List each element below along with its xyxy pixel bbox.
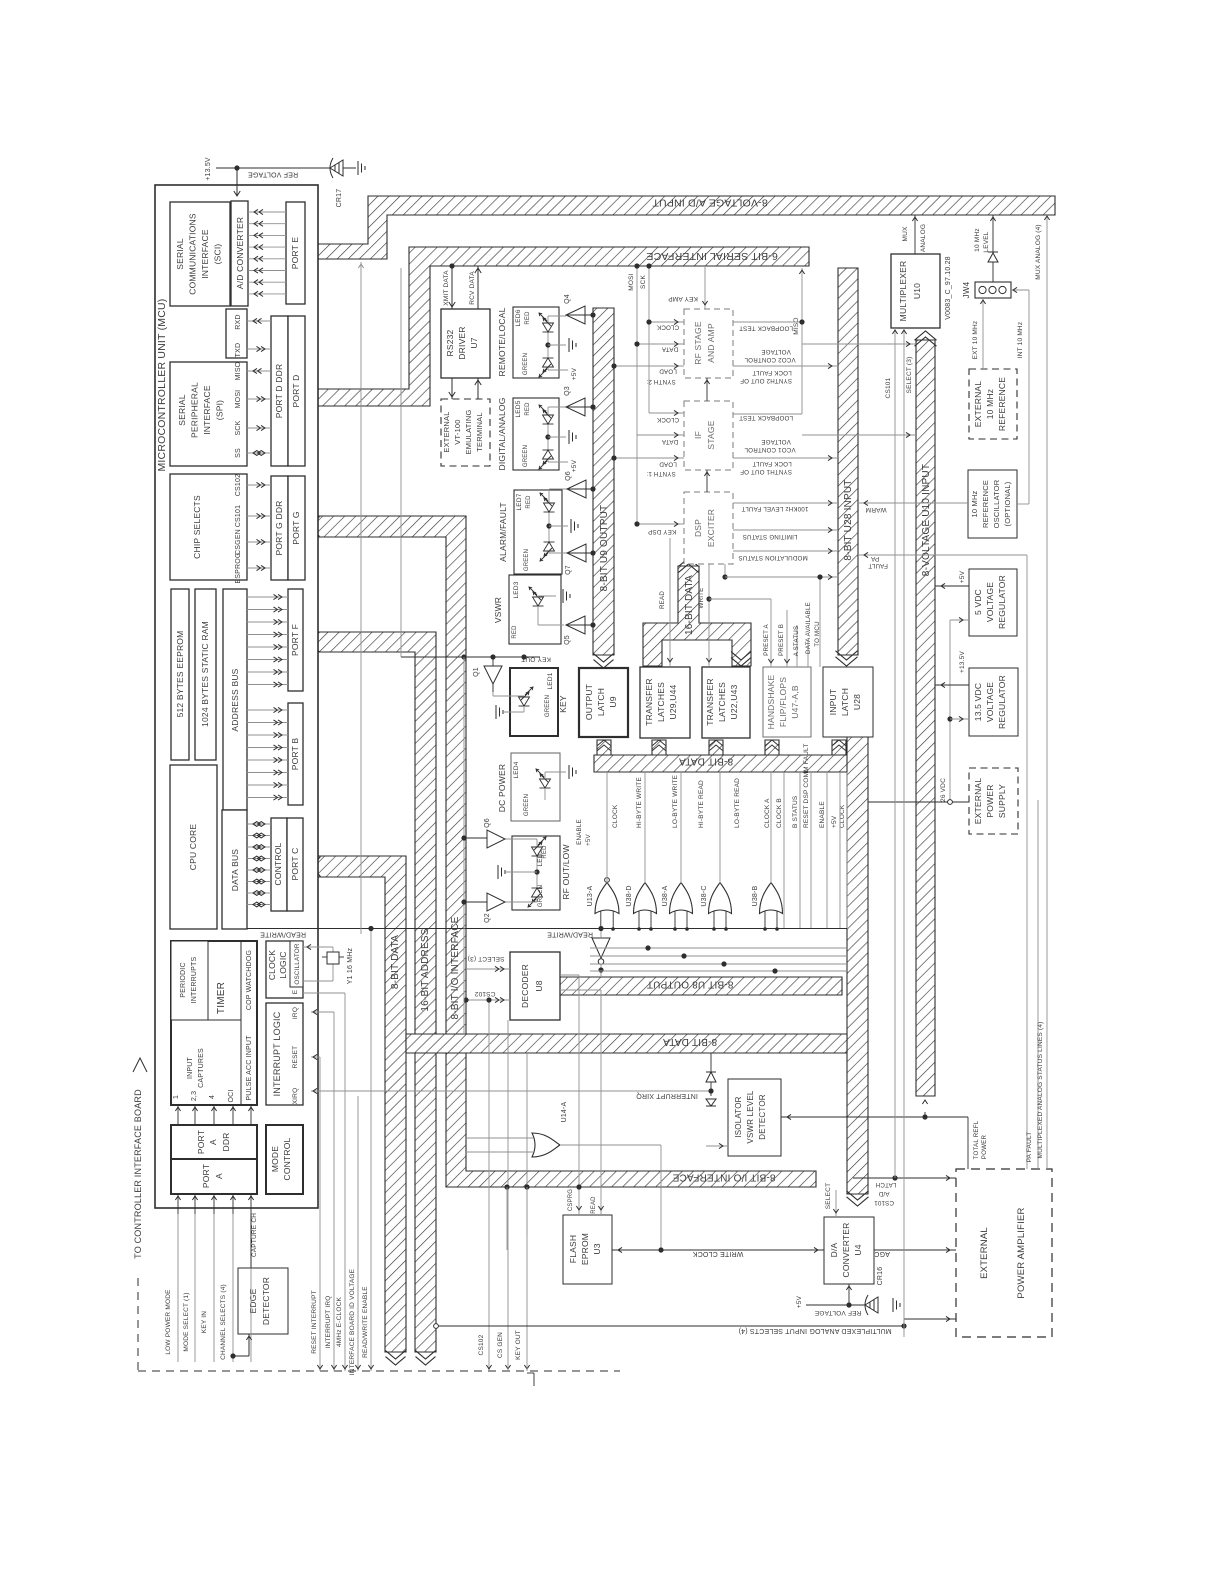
- key rail: [400, 268, 402, 657]
- svg-text:SYNTH1 OUT OF: SYNTH1 OUT OF: [740, 468, 792, 475]
- svg-text:8-BIT DATA: 8-BIT DATA: [679, 756, 733, 767]
- svg-text:KEY AMP: KEY AMP: [668, 295, 698, 302]
- MISO rail: [801, 268, 803, 414]
- hatched bus: 8-VOLTAGE A/D INPUT (top band + PORT E leg): [305, 196, 1055, 259]
- svg-text:OUTPUT: OUTPUT: [584, 684, 594, 720]
- svg-text:MODULATION STATUS: MODULATION STATUS: [738, 554, 807, 561]
- LED7 red diode: [540, 493, 555, 512]
- RS232 to VT100: [449, 392, 455, 397]
- box PORT C: [287, 818, 303, 911]
- INT 10 MHz wire: [1011, 289, 1029, 291]
- svg-text:Q3: Q3: [564, 386, 571, 396]
- svg-text:SYNTH 2:: SYNTH 2:: [646, 378, 676, 385]
- svg-text:GREEN: GREEN: [523, 445, 529, 467]
- svg-text:U7: U7: [469, 337, 479, 348]
- hatched bus: 8-BIT DATA (upper horizontal, under latches): [594, 755, 849, 772]
- svg-text:LATCH: LATCH: [596, 688, 606, 716]
- svg-text:SUPPLY: SUPPLY: [997, 784, 1007, 818]
- svg-text:LOAD: LOAD: [659, 461, 677, 468]
- svg-text:PERIODIC: PERIODIC: [180, 962, 187, 997]
- svg-text:CHANNEL SELECTS (4): CHANNEL SELECTS (4): [220, 1284, 227, 1360]
- svg-text:RF STAGE: RF STAGE: [693, 321, 703, 365]
- svg-text:DC POWER: DC POWER: [497, 764, 507, 812]
- box SERIAL PERIPHERAL INTERFACE (SPI): [170, 362, 247, 466]
- bottom multiplexed analog input selects: [436, 1325, 904, 1327]
- svg-text:CHIP SELECTS: CHIP SELECTS: [192, 495, 202, 559]
- svg-text:LOOPBACK TEST: LOOPBACK TEST: [739, 325, 793, 332]
- svg-text:MUX ANALOG (4): MUX ANALOG (4): [1035, 224, 1042, 280]
- gate interconnect wires: [590, 947, 846, 949]
- svg-text:CS102: CS102: [478, 1334, 485, 1355]
- svg-text:+5V: +5V: [585, 833, 592, 845]
- svg-text:LOCK FAULT: LOCK FAULT: [752, 369, 791, 376]
- svg-text:IF: IF: [693, 431, 703, 439]
- dashed box EXTERNAL POWER SUPPLY: [969, 768, 1018, 834]
- svg-text:V0083_C_97.10.28: V0083_C_97.10.28: [945, 256, 952, 320]
- svg-text:U8: U8: [534, 980, 544, 991]
- ground LED4: [569, 765, 576, 779]
- box TRANSFER LATCHES U22,U43: [702, 667, 750, 738]
- svg-text:CS101: CS101: [874, 1199, 894, 1206]
- chevron up into latch box: [710, 740, 723, 746]
- TIMER inner divider 2: [171, 1019, 241, 1021]
- XMIT DATA / RCV DATA: [451, 266, 453, 309]
- svg-text:RED: RED: [525, 311, 531, 325]
- ground LED7: [571, 519, 578, 533]
- chevron into PORT C: [306, 857, 314, 877]
- svg-text:CLOCK: CLOCK: [656, 324, 679, 331]
- svg-text:E: E: [292, 989, 299, 994]
- box MODE CONTROL: [266, 1125, 303, 1194]
- svg-text:PULSE ACC INPUT: PULSE ACC INPUT: [246, 1035, 253, 1101]
- svg-text:10 MHz: 10 MHz: [970, 490, 979, 517]
- svg-text:LOOPBACK TEST: LOOPBACK TEST: [739, 414, 793, 421]
- svg-text:MULTIPLEXER: MULTIPLEXER: [898, 261, 908, 322]
- wire reset interrupt: [319, 1057, 321, 1362]
- TOTAL REFL POWER path: [781, 1116, 968, 1118]
- svg-text:LEVEL: LEVEL: [983, 231, 990, 252]
- svg-text:READ/WRITE ENABLE: READ/WRITE ENABLE: [362, 1286, 369, 1358]
- DSP pins: [637, 523, 684, 525]
- svg-text:U3: U3: [592, 1243, 602, 1254]
- svg-text:RED: RED: [512, 625, 518, 639]
- LED6 green diode: [539, 358, 554, 377]
- svg-text:CLOCK: CLOCK: [612, 804, 619, 828]
- svg-text:ENABLE: ENABLE: [819, 801, 826, 828]
- svg-text:TXD: TXD: [235, 343, 242, 358]
- chip select arrows: [247, 484, 271, 486]
- hatched bus: 16-BIT DATA manifold: [643, 566, 751, 666]
- svg-text:INTERRUPT XIRQ: INTERRUPT XIRQ: [636, 1092, 698, 1099]
- svg-text:U4: U4: [853, 1244, 863, 1255]
- svg-text:CONTROL: CONTROL: [282, 1137, 292, 1180]
- svg-text:10 MHz: 10 MHz: [974, 228, 981, 252]
- svg-text:8-BIT DATA: 8-BIT DATA: [390, 935, 401, 989]
- svg-text:U38-A: U38-A: [662, 885, 669, 906]
- svg-text:EXTERNAL: EXTERNAL: [442, 411, 451, 452]
- svg-text:REFERENCE: REFERENCE: [997, 377, 1007, 431]
- PORT A DDR to TIMER arrows: [177, 1105, 179, 1125]
- chevron into PORT F: [305, 632, 313, 652]
- dashed box EXTERNAL 10 MHz REFERENCE: [969, 369, 1017, 439]
- svg-text:CS101: CS101: [235, 505, 242, 527]
- svg-text:CS102: CS102: [474, 990, 495, 997]
- transistor Q6: [567, 480, 586, 498]
- svg-text:READ/WRITE: READ/WRITE: [547, 931, 593, 938]
- KEY AMP wire: [704, 266, 706, 309]
- chevron up into latch box: [833, 740, 846, 746]
- box RXD TXD pins: [226, 309, 247, 358]
- DSP bottom wires: [708, 564, 710, 599]
- hatched bus: PORT F to 16-BIT ADDRESS: [305, 632, 436, 1352]
- box DATA BUS: [222, 810, 247, 929]
- svg-text:EXTERNAL: EXTERNAL: [979, 1227, 990, 1279]
- svg-text:REF VOLTAGE: REF VOLTAGE: [814, 1309, 861, 1316]
- svg-text:CONVERTER: CONVERTER: [841, 1222, 851, 1277]
- chevron into PORT D: [305, 389, 312, 406]
- svg-text:5 VDC: 5 VDC: [973, 589, 983, 615]
- svg-text:A: A: [214, 1173, 224, 1179]
- SPI pin arrows MISO MOSI SCK SS: [247, 370, 271, 372]
- hatched bus: 8-BIT U28 INPUT lower leg to D/A: [847, 737, 868, 1194]
- hatched bus: 8-BIT DATA (lower horizontal): [406, 1034, 847, 1053]
- svg-text:JW4: JW4: [962, 281, 971, 298]
- svg-text:DATA BUS: DATA BUS: [230, 849, 240, 892]
- LED2 green diode: [528, 888, 543, 907]
- svg-text:KEY OUT: KEY OUT: [515, 1330, 522, 1360]
- chevron up into latch box: [766, 740, 779, 746]
- svg-text:RESET INTERRUPT: RESET INTERRUPT: [311, 1290, 318, 1354]
- svg-text:U10: U10: [912, 283, 922, 299]
- hatched bus: 6-BIT SERIAL INTERFACE (band + PORT D leg): [305, 247, 809, 406]
- svg-text:TERMINAL: TERMINAL: [475, 412, 484, 452]
- dashed box EXTERNAL VT-100 EMULATING TERMINAL: [441, 399, 490, 466]
- svg-text:RED: RED: [526, 495, 532, 509]
- svg-text:(SPI): (SPI): [215, 400, 225, 420]
- address bus arrows to PORT B: [247, 709, 288, 711]
- svg-text:RF OUT/LOW: RF OUT/LOW: [561, 844, 571, 899]
- svg-text:SELECT: SELECT: [825, 1183, 832, 1210]
- box INTERRUPT LOGIC: [266, 1003, 303, 1105]
- svg-text:MODE SELECT (1): MODE SELECT (1): [183, 1292, 190, 1351]
- svg-text:OCI: OCI: [228, 1089, 235, 1102]
- svg-text:MISO: MISO: [793, 317, 800, 334]
- svg-text:PORT D DDR: PORT D DDR: [274, 364, 284, 419]
- chevron down 8-BIT DATA to interface: [386, 1357, 406, 1365]
- interface chevron: [133, 1058, 147, 1072]
- hatched bus: 8-VOLTAGE U10 INPUT: [916, 340, 935, 1096]
- svg-text:SS: SS: [235, 448, 242, 458]
- svg-text:SYNTH2 OUT OF: SYNTH2 OUT OF: [740, 377, 792, 384]
- box 13.5 VDC VOLTAGE REGULATOR: [969, 668, 1018, 736]
- svg-text:CAPTURE CH: CAPTURE CH: [251, 1213, 258, 1257]
- LED5 internals: [548, 406, 566, 408]
- svg-text:100KHz LEVEL FAULT: 100KHz LEVEL FAULT: [742, 505, 809, 512]
- box DECODER U8: [510, 952, 560, 1020]
- svg-text:KEY IN: KEY IN: [201, 1311, 208, 1334]
- svg-text:8-BIT U9 OUTPUT: 8-BIT U9 OUTPUT: [599, 505, 610, 592]
- svg-text:DETECTOR: DETECTOR: [261, 1277, 271, 1325]
- wire into PA: CS101/latch: [853, 1177, 956, 1179]
- box LED2 RF OUT/LOW: [512, 836, 560, 910]
- RXD/TXD wires to serial band: [247, 320, 271, 322]
- box OSCILLATOR: [290, 941, 303, 987]
- svg-text:VSWR: VSWR: [493, 597, 503, 623]
- svg-text:1024 BYTES STATIC RAM: 1024 BYTES STATIC RAM: [200, 621, 210, 727]
- svg-text:CS101: CS101: [885, 377, 892, 398]
- svg-text:4: 4: [209, 1095, 216, 1099]
- svg-text:16-BIT ADDRESS: 16-BIT ADDRESS: [420, 928, 431, 1011]
- svg-text:GREEN: GREEN: [545, 695, 551, 717]
- box RS232 DRIVER U7: [441, 309, 490, 378]
- dashed box EXTERNAL POWER AMPLIFIER: [956, 1169, 1052, 1337]
- svg-text:8-BIT I/O INTERFACE: 8-BIT I/O INTERFACE: [672, 1172, 775, 1183]
- dashed box IF STAGE: [684, 401, 733, 470]
- box INPUT LATCH U28: [823, 667, 873, 737]
- svg-text:GREEN: GREEN: [523, 353, 529, 375]
- svg-text:LATCH: LATCH: [840, 688, 850, 716]
- box PERIODIC INTERRUPTS: [171, 941, 208, 1020]
- svg-text:VT-100: VT-100: [453, 419, 462, 444]
- junction ref voltage: [234, 165, 239, 170]
- svg-text:EXT 10 MHz: EXT 10 MHz: [972, 321, 979, 360]
- svg-text:INTERRUPT LOGIC: INTERRUPT LOGIC: [272, 1011, 282, 1096]
- chevron into PORT E: [305, 244, 311, 259]
- svg-text:U29,U44: U29,U44: [668, 684, 678, 719]
- svg-text:WRITE CLOCK: WRITE CLOCK: [692, 1250, 743, 1257]
- wire CS101 rail: [894, 328, 896, 1178]
- svg-text:SELECT (3): SELECT (3): [468, 955, 505, 962]
- decoder out 1: [560, 974, 579, 976]
- svg-text:MODE: MODE: [270, 1146, 280, 1172]
- svg-text:PA FAULT: PA FAULT: [1026, 1132, 1033, 1163]
- svg-text:STAGE: STAGE: [706, 420, 716, 449]
- LED7 green diode: [540, 542, 555, 561]
- box JW4 jumper: [975, 282, 1011, 298]
- wire CS GEN down: [507, 1020, 509, 1371]
- ground LED2: [498, 865, 505, 879]
- svg-text:VOLTAGE: VOLTAGE: [761, 438, 791, 445]
- box 512 BYTES EEPROM: [171, 589, 189, 760]
- wire KEY OUT down: [526, 1053, 528, 1371]
- svg-text:DSP: DSP: [693, 519, 703, 537]
- svg-text:SYNTH 1:: SYNTH 1:: [646, 470, 676, 477]
- svg-text:ESPROG: ESPROG: [235, 552, 242, 583]
- wire READ flash: [600, 990, 602, 1215]
- svg-text:CLOCK B: CLOCK B: [776, 798, 783, 828]
- 10 MHz LEVEL line: [992, 215, 994, 282]
- svg-text:CSPRG: CSPRG: [568, 1189, 574, 1211]
- svg-text:ANALOG: ANALOG: [920, 224, 927, 252]
- box CPU CORE: [170, 765, 217, 929]
- transistor Q3: [566, 398, 585, 416]
- diode pair bottom: [706, 1099, 716, 1106]
- box SERIAL COMMUNICATIONS INTERFACE (SCI): [170, 202, 230, 306]
- wires U9 band to LED drivers: [566, 314, 593, 316]
- box CONTROL: [271, 818, 287, 911]
- box LED3 VSWR: [509, 575, 561, 644]
- RF left pins: [649, 321, 684, 323]
- wire CSPRG: [578, 975, 580, 1215]
- TIMER inner divider: [240, 941, 242, 1105]
- ground CR17: [358, 161, 365, 175]
- svg-text:CPU CORE: CPU CORE: [188, 824, 198, 871]
- arrows between RF/IF/DSP: [706, 378, 708, 401]
- svg-text:INT 10 MHz: INT 10 MHz: [1017, 322, 1024, 359]
- svg-text:POWER: POWER: [981, 1134, 988, 1159]
- svg-text:PORT G DDR: PORT G DDR: [274, 500, 284, 555]
- wire 4MHz e-clock: [344, 993, 346, 1362]
- svg-text:DRIVER: DRIVER: [457, 326, 467, 359]
- svg-text:512 BYTES EEPROM: 512 BYTES EEPROM: [175, 631, 185, 718]
- svg-text:DETECTOR: DETECTOR: [758, 1094, 767, 1139]
- svg-text:LO-BYTE WRITE: LO-BYTE WRITE: [672, 774, 679, 828]
- svg-text:POWER AMPLIFIER: POWER AMPLIFIER: [1016, 1207, 1027, 1298]
- gate U13-A: [595, 883, 619, 914]
- MUX ANALOG arrow to top band: [914, 215, 916, 254]
- box LED4 DC POWER: [511, 753, 560, 821]
- box LED7 ALARM/FAULT: [514, 490, 562, 574]
- svg-text:HANDSHAKE: HANDSHAKE: [766, 675, 776, 730]
- svg-text:READ: READ: [591, 1196, 597, 1214]
- svg-text:CONTROL: CONTROL: [273, 842, 283, 885]
- box MULTIPLEXER U10: [891, 254, 940, 328]
- svg-text:GREEN: GREEN: [524, 794, 530, 816]
- LED5 green diode: [539, 450, 554, 469]
- svg-text:U9: U9: [608, 696, 618, 707]
- wire multiplexed analog status lines: [1037, 800, 1039, 1169]
- svg-text:PA: PA: [870, 555, 879, 562]
- chevron into PORT G: [305, 517, 313, 537]
- inverter READ/WRITE: [592, 938, 610, 958]
- svg-text:+5V: +5V: [959, 570, 966, 583]
- svg-text:EDGE: EDGE: [248, 1288, 258, 1313]
- svg-text:VCO1 CONTROL: VCO1 CONTROL: [744, 446, 796, 453]
- svg-text:+5V: +5V: [571, 367, 578, 380]
- svg-text:LATCH: LATCH: [876, 1181, 897, 1188]
- svg-text:EXTERNAL: EXTERNAL: [973, 778, 983, 825]
- svg-text:MOSI: MOSI: [235, 390, 242, 409]
- svg-text:SCK: SCK: [640, 275, 647, 289]
- svg-text:KEY: KEY: [558, 695, 568, 713]
- svg-text:ENABLE: ENABLE: [576, 819, 583, 845]
- chevron up from 16-BIT DATA band: [679, 558, 699, 566]
- svg-text:A/D CONVERTER: A/D CONVERTER: [235, 217, 245, 289]
- svg-text:PRESET B: PRESET B: [778, 624, 785, 656]
- svg-text:Q2: Q2: [484, 913, 491, 923]
- svg-text:LED7: LED7: [516, 493, 523, 510]
- svg-text:KEY DSP: KEY DSP: [648, 528, 676, 535]
- svg-text:+5V: +5V: [796, 1295, 803, 1308]
- svg-text:Q7: Q7: [565, 565, 572, 575]
- LED6 red diode: [539, 313, 554, 332]
- wire CS102 down: [488, 1000, 490, 1371]
- svg-text:AGC: AGC: [874, 1250, 890, 1257]
- svg-text:A/D: A/D: [878, 1190, 889, 1197]
- LED5 red diode: [539, 405, 554, 424]
- svg-text:D/A: D/A: [829, 1242, 839, 1257]
- box PORT D DDR: [271, 316, 288, 466]
- svg-text:(OPTIONAL): (OPTIONAL): [1003, 481, 1012, 526]
- XIRQ interrupt wire: [311, 1090, 711, 1092]
- svg-text:U38-D: U38-D: [626, 885, 633, 906]
- box CHIP SELECTS: [170, 474, 247, 580]
- svg-text:MISO: MISO: [235, 361, 242, 380]
- svg-text:TO CONTROLLER INTERFACE BOA: TO CONTROLLER INTERFACE BOARD: [133, 1089, 143, 1259]
- svg-text:PERIPHERAL: PERIPHERAL: [190, 382, 200, 438]
- dashed box RF STAGE AND AMP: [684, 309, 733, 378]
- svg-text:RESET DSP COMM FAULT: RESET DSP COMM FAULT: [803, 743, 810, 828]
- box TIMER: [171, 941, 257, 1105]
- svg-text:CSGEN: CSGEN: [235, 529, 242, 555]
- long gray rail: [360, 262, 362, 934]
- svg-text:LED3: LED3: [513, 581, 520, 598]
- svg-text:PORT: PORT: [196, 1130, 206, 1154]
- svg-text:INTERRUPT IRQ: INTERRUPT IRQ: [325, 1295, 332, 1348]
- svg-text:SERIAL: SERIAL: [177, 394, 187, 426]
- chevron into INPUT LATCH U28: [836, 657, 858, 666]
- svg-text:LED1: LED1: [547, 672, 554, 689]
- box PORT B: [288, 703, 303, 805]
- LED2 red diode: [532, 837, 547, 856]
- svg-text:B STATUS: B STATUS: [792, 795, 799, 828]
- MCU outer box: [155, 185, 318, 1208]
- svg-text:PORT: PORT: [201, 1164, 211, 1188]
- svg-text:XMIT DATA: XMIT DATA: [443, 270, 450, 306]
- 26 VDC wire: [868, 801, 969, 803]
- crystal Y1 16 MHz: [303, 946, 333, 948]
- ground LED5: [569, 430, 576, 444]
- box LED6 REMOTE/LOCAL: [513, 307, 559, 378]
- svg-text:REFERENCE: REFERENCE: [981, 480, 990, 528]
- svg-text:2,3: 2,3: [191, 1091, 198, 1101]
- VT100 to RS232: [475, 380, 481, 385]
- hatched bus stubs up to latch boxes: [597, 740, 611, 755]
- box LED1 KEY: [510, 668, 558, 736]
- KEY OUT wire: [401, 656, 540, 658]
- svg-text:Q6: Q6: [484, 818, 491, 828]
- wire SELECT (3) rail: [903, 328, 905, 1337]
- svg-text:CS102: CS102: [235, 474, 242, 496]
- svg-text:REF VOLTAGE: REF VOLTAGE: [248, 171, 298, 178]
- svg-text:LED4: LED4: [513, 761, 520, 778]
- svg-text:DATA: DATA: [661, 346, 678, 353]
- gate output wires up to 8-BIT DATA band: [606, 772, 608, 883]
- edge detector wires: [250, 1214, 252, 1268]
- gate U38-B: [760, 883, 783, 914]
- svg-text:RS232: RS232: [445, 329, 455, 356]
- svg-text:4MHz E-CLOCK: 4MHz E-CLOCK: [336, 1297, 343, 1348]
- LED6 internals: [548, 315, 566, 317]
- svg-text:CLOCK: CLOCK: [656, 416, 679, 423]
- svg-text:TIMER: TIMER: [216, 982, 227, 1014]
- svg-text:VCO2 CONTROL: VCO2 CONTROL: [744, 356, 796, 363]
- svg-text:Q5: Q5: [564, 635, 571, 645]
- arrow into MCU top: [234, 191, 240, 196]
- box CLOCK LOGIC: [266, 941, 303, 998]
- box ISOLATOR VSWR LEVEL DETECTOR: [728, 1079, 781, 1156]
- address bus arrows to PORT F: [247, 596, 288, 598]
- svg-text:POWER: POWER: [985, 784, 995, 817]
- transistor Q5: [566, 616, 585, 634]
- Q6/Q2 feed wires: [463, 657, 465, 1034]
- chevron up into latch box: [653, 740, 666, 746]
- svg-text:TOTAL REFL: TOTAL REFL: [973, 1120, 980, 1159]
- svg-text:RED: RED: [525, 402, 531, 416]
- box LED5 DIGITAL/ANALOG: [513, 398, 559, 470]
- svg-text:DECODER: DECODER: [520, 964, 530, 1008]
- svg-text:PORT F: PORT F: [290, 624, 300, 656]
